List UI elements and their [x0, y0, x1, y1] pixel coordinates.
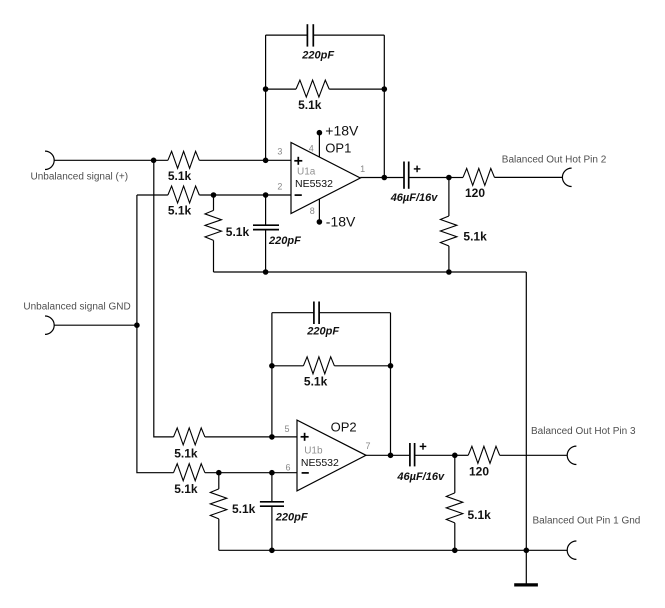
capacitor C2 220pF (pin2 to bottom rail) [265, 195, 267, 225]
wire: C4 right lead [319, 312, 390, 314]
svg-text:U1a: U1a [297, 167, 316, 178]
svg-text:5.1k: 5.1k [463, 230, 487, 244]
wire: +18V supply stub [318, 133, 320, 157]
node: +18V terminal [317, 130, 323, 136]
svg-text:5.1k: 5.1k [168, 204, 192, 218]
capacitor C5 220pF (pin6 to bottom rail) [271, 473, 273, 502]
svg-text:46µF/16v: 46µF/16v [390, 192, 439, 204]
op-amp U1a triangle [291, 143, 360, 214]
resistor R10 120 (series out) [455, 454, 468, 456]
svg-text:Unbalanced signal GND: Unbalanced signal GND [23, 302, 130, 313]
node OUT1: feedback tap on output [382, 175, 388, 181]
C3 polarity + mark [414, 168, 421, 170]
svg-text:8: 8 [310, 206, 315, 216]
wire: C1 right lead [313, 34, 384, 36]
output jack J4 hot pin 3 [567, 446, 576, 464]
input jack J1 unbalanced signal (+) [45, 151, 54, 169]
wire: R3 to U1a pin2 [199, 194, 291, 196]
svg-text:NE5532: NE5532 [301, 457, 339, 469]
svg-text:5.1k: 5.1k [232, 502, 256, 516]
node: -18V terminal [317, 219, 323, 225]
U1a noninverting + mark [294, 160, 302, 162]
svg-text:7: 7 [365, 441, 370, 451]
node K: output divider junction [452, 453, 458, 459]
wire: C3 to node E [409, 177, 449, 179]
wire: OP2 left feedback rail [271, 313, 273, 437]
node: C2 bottom on rail [263, 269, 269, 275]
resistor R7 5.1k (input+ to pin5) [174, 428, 205, 445]
resistor R5 120 (series out) [449, 177, 463, 179]
wire: OP2 right feedback rail [390, 313, 392, 456]
svg-text:220pF: 220pF [275, 512, 308, 524]
node: R6 bottom on rail [446, 269, 452, 275]
svg-text:5: 5 [284, 424, 289, 434]
U1b inverting - mark [302, 472, 309, 474]
svg-text:5.1k: 5.1k [174, 446, 198, 460]
wire: rail from node A down to OP2 row1 [154, 160, 174, 437]
wire: U1b output to C6 [366, 454, 410, 456]
node: R11 bottom on rail [452, 548, 458, 554]
node H: pin5 junction [269, 434, 275, 440]
wire: right feedback rail down to output [383, 35, 385, 177]
capacitor C6 46uF/16v (output coupling) [409, 443, 411, 466]
svg-text:5.1k: 5.1k [226, 225, 250, 239]
C6 polarity + mark [420, 445, 427, 447]
svg-text:OP2: OP2 [331, 420, 357, 435]
node OUT2: feedback tap on output [388, 453, 394, 459]
svg-text:Balanced Out Pin 1 Gnd: Balanced Out Pin 1 Gnd [533, 516, 641, 527]
resistor R12 5.1k (gnd rail to pin6) [174, 464, 205, 481]
node E: output divider junction [446, 175, 452, 181]
wire: U1a output to C3 [360, 177, 404, 179]
svg-text:5.1k: 5.1k [304, 375, 328, 389]
capacitor C4 220pF (OP2 feedback) [313, 302, 315, 325]
U1a inverting - mark [295, 194, 302, 196]
ground symbol stem [525, 550, 527, 584]
svg-text:U1b: U1b [304, 445, 323, 456]
svg-text:220pF: 220pF [301, 50, 334, 62]
node J: pin6 junction [269, 470, 275, 476]
node F4: OP2 feedback rail right [388, 363, 394, 369]
resistor R3 5.1k (gnd rail to pin2) [168, 186, 199, 203]
wire: right rail down (OP1 rail to gnd rail) [525, 272, 527, 550]
svg-text:4: 4 [309, 144, 314, 154]
capacitor C3 46uF/16v (output coupling) [403, 162, 405, 189]
wire: C1 left lead [266, 34, 308, 36]
node A: input+ junction [151, 158, 157, 164]
node: C5 bottom on rail [269, 548, 275, 554]
op-amp U1b triangle [297, 420, 366, 491]
svg-text:2: 2 [277, 181, 282, 191]
wire: R12 to U1b pin6 [205, 472, 297, 474]
wire: J3 to gnd rail [54, 324, 137, 326]
resistor R6 5.1k (out to bottom rail) [448, 178, 450, 217]
svg-text:120: 120 [465, 186, 485, 200]
svg-text:+18V: +18V [325, 123, 359, 139]
wire: row2 corner to R3 [137, 194, 168, 196]
output jack J2 hot pin 2 [562, 168, 571, 186]
svg-text:120: 120 [469, 465, 489, 479]
svg-text:OP1: OP1 [325, 141, 351, 156]
wire: R1 to U1a pin3 [199, 159, 291, 161]
wire: rail from row2 down to OP2 row2 [137, 195, 174, 473]
svg-text:5.1k: 5.1k [298, 98, 322, 112]
wire: -18V supply stub [318, 199, 320, 222]
node D: pin2 junction [263, 192, 269, 198]
resistor R4 5.1k (pin2 to bottom rail) [213, 195, 215, 210]
svg-text:3: 3 [277, 146, 282, 156]
node L: gnd rail junction [524, 548, 530, 554]
svg-text:Balanced Out Hot Pin 2: Balanced Out Hot Pin 2 [502, 155, 607, 166]
resistor R2 5.1k (feedback) [266, 88, 296, 90]
node G: gnd input junction [134, 322, 140, 328]
wire: OP2 bottom rail [219, 549, 567, 551]
svg-text:5.1k: 5.1k [174, 482, 198, 496]
resistor R11 5.1k (out to bottom rail) [454, 455, 456, 493]
capacitor C1 220pF (feedback) [306, 24, 308, 46]
svg-text:5.1k: 5.1k [468, 508, 492, 522]
node I: R9 top junction [216, 470, 222, 476]
resistor R8 5.1k (OP2 feedback) [272, 365, 304, 367]
svg-text:46µF/16v: 46µF/16v [396, 471, 445, 483]
ground symbol bar [514, 583, 538, 586]
node B: pin3 junction [263, 158, 269, 164]
wire: OP1 bottom rail [214, 271, 527, 273]
resistor R1 5.1k (input+ to pin3) [168, 151, 199, 168]
svg-text:1: 1 [360, 164, 365, 174]
svg-text:6: 6 [285, 463, 290, 473]
wire: C4 left lead [272, 312, 314, 314]
svg-text:5.1k: 5.1k [168, 169, 192, 183]
node F1: feedback rail / R2 left [263, 86, 269, 92]
U1b noninverting + mark [301, 436, 309, 438]
node F3: OP2 feedback rail / R8 left [269, 363, 275, 369]
wire: J1 to R1 [54, 159, 168, 161]
input jack J3 unbalanced signal GND [45, 316, 54, 334]
svg-text:Unbalanced signal (+): Unbalanced signal (+) [31, 172, 129, 183]
wire: R7 to U1b pin5 [205, 436, 297, 438]
svg-text:-18V: -18V [326, 214, 356, 230]
svg-text:NE5532: NE5532 [295, 178, 333, 190]
svg-text:Balanced Out Hot Pin 3: Balanced Out Hot Pin 3 [531, 426, 636, 437]
resistor R9 5.1k (pin6 to bottom rail) [218, 473, 220, 489]
wire: left feedback rail (node B up to C1) [265, 35, 267, 160]
node C: R4 top junction [211, 192, 217, 198]
svg-text:220pF: 220pF [268, 235, 301, 247]
node F2: feedback rail right / R2 right [382, 86, 388, 92]
output jack J5 pin 1 gnd [567, 541, 576, 559]
svg-text:220pF: 220pF [306, 326, 339, 338]
wire: C6 to node K [415, 454, 455, 456]
